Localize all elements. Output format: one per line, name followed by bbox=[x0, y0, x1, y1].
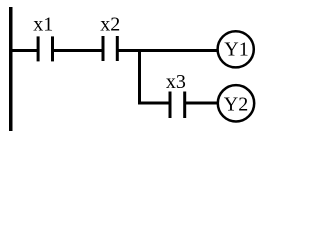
wire x3 to coil Y2 bbox=[185, 102, 218, 105]
left power rail bbox=[9, 7, 13, 131]
output coil Y2 bbox=[218, 85, 254, 121]
wire branch to contact x3 bbox=[138, 102, 170, 105]
contact x3 (normally open) bbox=[170, 92, 185, 119]
svg-text:Y2: Y2 bbox=[224, 94, 248, 116]
wire x1 to x2 bbox=[53, 49, 104, 52]
svg-text:x2: x2 bbox=[100, 14, 120, 36]
svg-text:x3: x3 bbox=[166, 71, 186, 93]
svg-text:x1: x1 bbox=[33, 14, 53, 36]
svg-text:Y1: Y1 bbox=[224, 39, 248, 61]
wire x2 to coil Y1 bbox=[117, 49, 217, 52]
contact x2 (normally open) bbox=[103, 36, 117, 61]
contact x1 (normally open) bbox=[38, 36, 52, 61]
output coil Y1 bbox=[218, 31, 254, 67]
wire rail to contact x1 bbox=[11, 49, 38, 52]
branch junction node bbox=[138, 49, 141, 105]
